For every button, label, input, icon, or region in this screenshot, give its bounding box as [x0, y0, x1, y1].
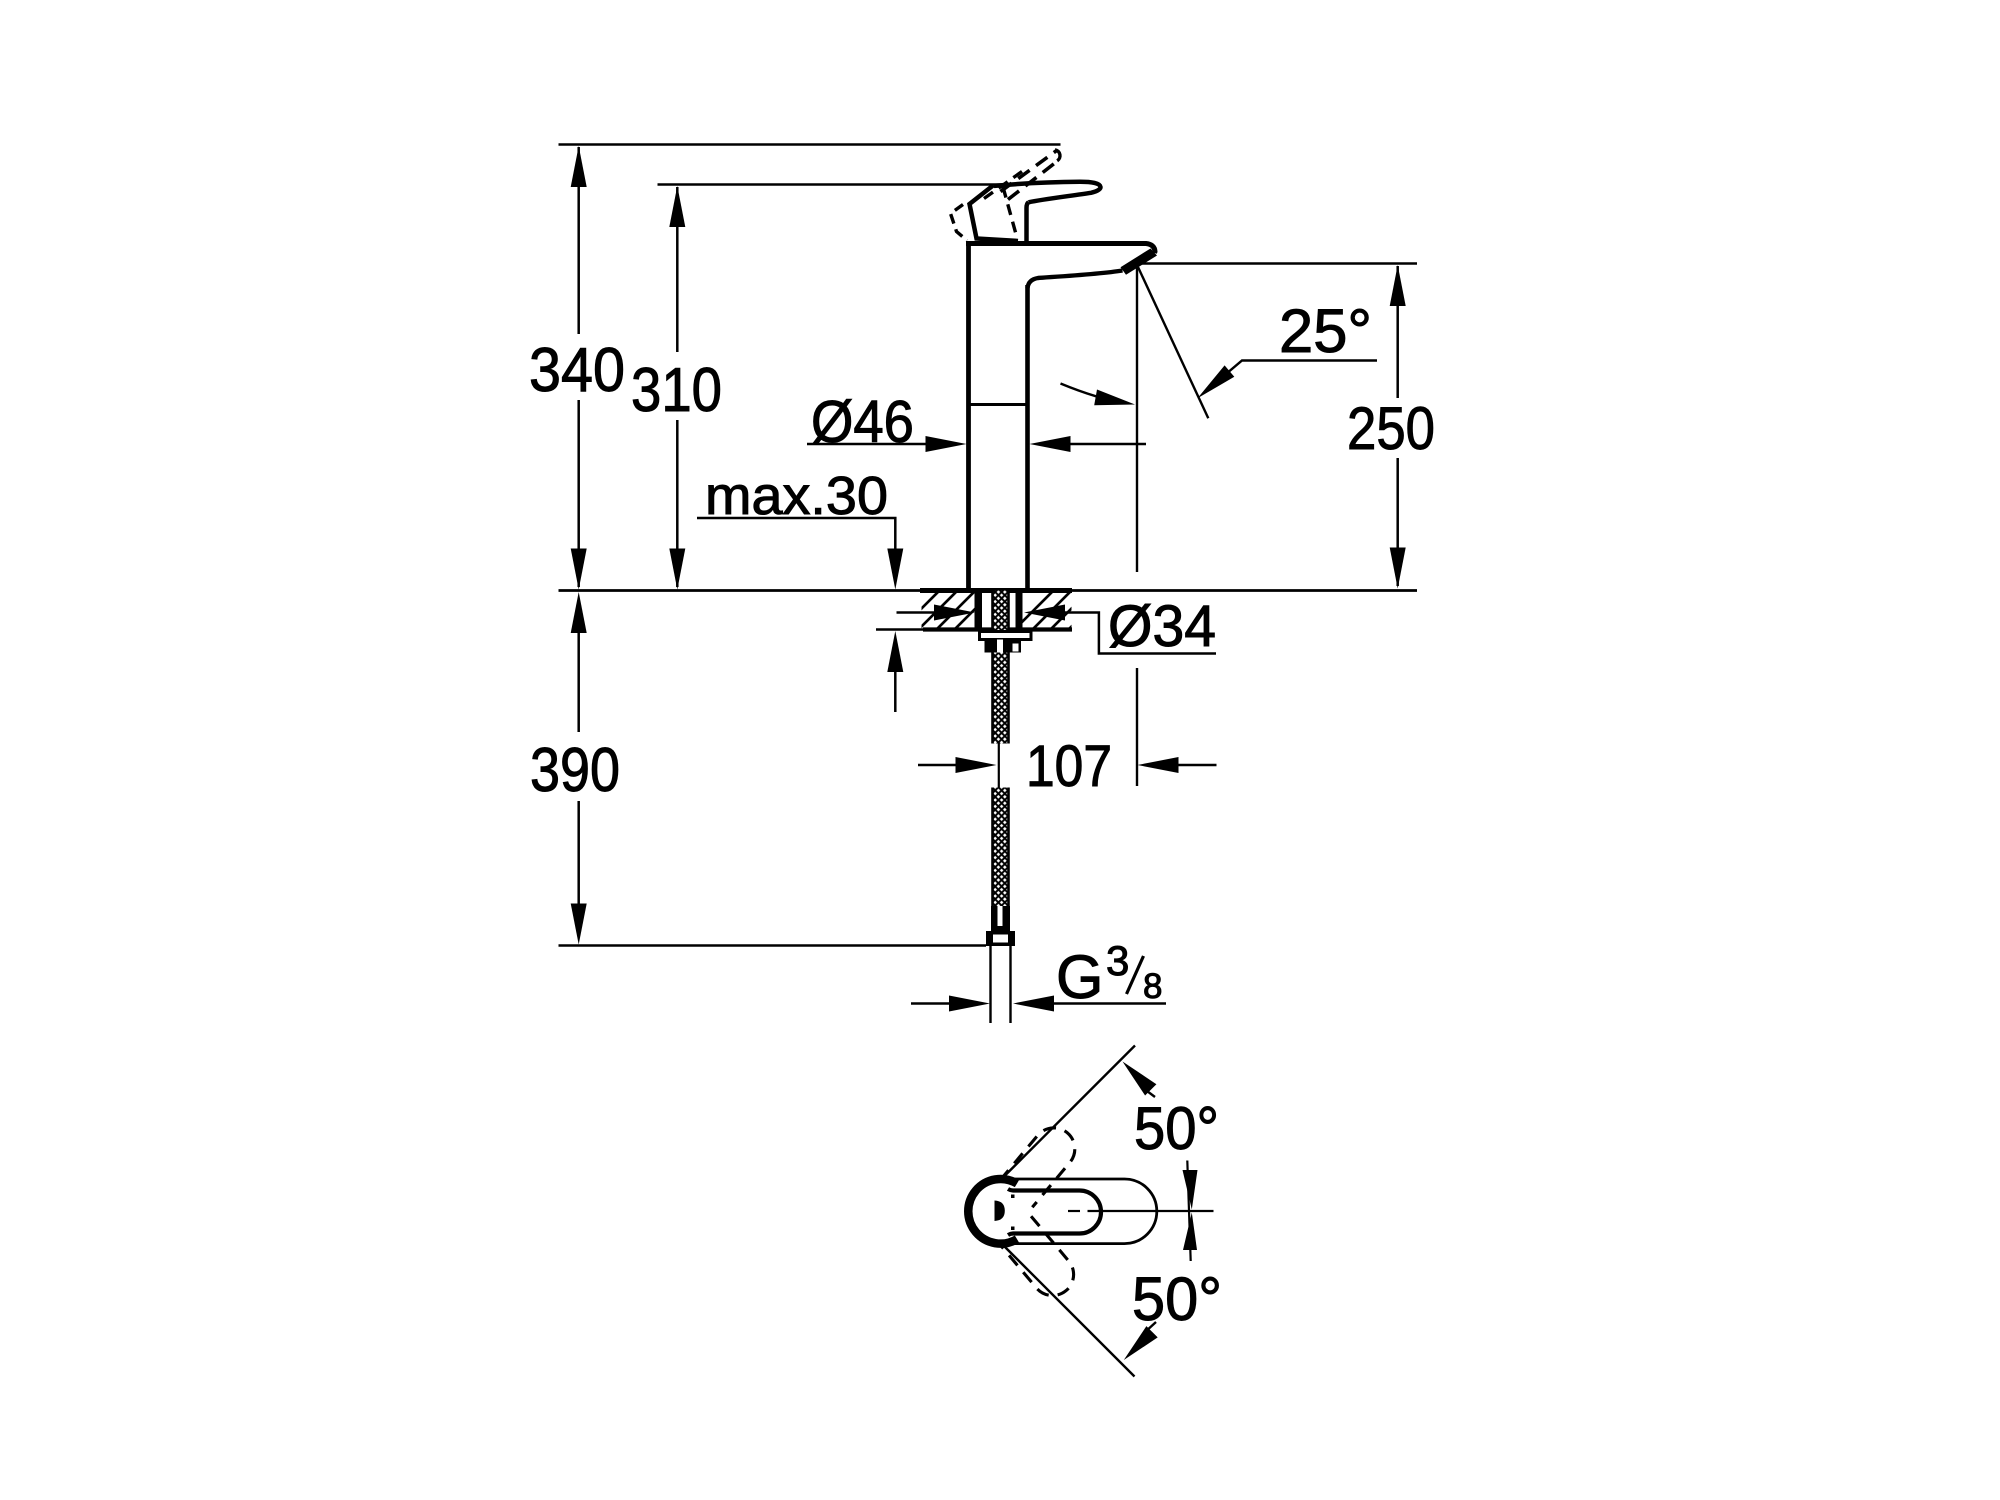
svg-text:310: 310 — [631, 356, 722, 425]
250 extension line top — [1139, 262, 1417, 265]
bottom view outer stadium — [968, 1179, 1157, 1244]
axis angle double arrow — [1187, 1161, 1190, 1262]
mounting nut — [985, 640, 1022, 653]
G3/8 dimension right — [1013, 996, 1054, 1012]
svg-text:50°: 50° — [1132, 1265, 1222, 1333]
bottom view knob thick arc — [968, 1179, 1017, 1244]
max.30 underline leader — [697, 518, 895, 552]
Ø34 dimension left — [897, 611, 939, 614]
counter bottom line — [923, 627, 1072, 631]
bottom view inner lever outline — [1008, 1189, 1101, 1235]
max.30 arrow down — [887, 549, 903, 590]
stream direction line — [1138, 267, 1208, 418]
hose middle thin line — [998, 744, 1000, 788]
connection tube — [989, 946, 991, 1023]
dimension 250 arrow down — [1390, 548, 1406, 589]
faucet body column right edge — [1025, 285, 1030, 589]
braided hose upper section — [993, 591, 1009, 744]
shank wall left — [975, 591, 983, 631]
upper 50 degree line — [1000, 1046, 1135, 1181]
dimension 340 arrow down — [571, 549, 587, 590]
dimension 340 arrow up — [571, 146, 587, 187]
svg-text:25°: 25° — [1279, 297, 1372, 365]
dimension 250 line — [1396, 266, 1399, 398]
counter cross-section hatch left — [896, 586, 998, 634]
faucet body top edge and spout tip — [966, 244, 1155, 254]
lever corner dots — [1011, 1195, 1015, 1199]
shank wall right — [1016, 591, 1023, 631]
dimension 310 line — [676, 187, 679, 352]
25 degree vertical reference line — [1136, 266, 1138, 572]
faucet body column left edge — [966, 242, 971, 589]
25 degree leader — [1203, 361, 1377, 394]
extension line 310 level — [658, 183, 1004, 186]
spout aerator bar — [1121, 249, 1158, 275]
dashed rotated knob outline — [951, 205, 968, 241]
dimension 390 arrow up — [571, 592, 587, 633]
dimension 390 arrow down — [571, 904, 587, 945]
dashed lever rotated up — [1000, 1119, 1083, 1207]
svg-text:G: G — [1056, 943, 1103, 1011]
G3/8 dimension left — [911, 1002, 953, 1005]
dimension 340 line — [577, 147, 580, 334]
svg-text:3: 3 — [1106, 937, 1129, 984]
spout underside — [1028, 271, 1123, 289]
dashed raised handle front edge — [1003, 187, 1017, 236]
handle knob — [970, 186, 1019, 242]
pivot mark — [995, 1201, 1005, 1222]
dashed lever rotated down — [999, 1216, 1082, 1304]
svg-text:107: 107 — [1026, 734, 1112, 799]
dimension 310 arrow up — [669, 186, 685, 227]
counter cross-section hatch right — [1010, 586, 1112, 634]
hose end fitting — [991, 906, 1010, 931]
angle arc — [1061, 384, 1127, 404]
svg-text:Ø34: Ø34 — [1108, 594, 1216, 659]
counter thickness arrow (30) — [887, 631, 903, 672]
dimension 390 line — [577, 633, 580, 732]
hose end extension line — [559, 944, 987, 947]
body joint line — [969, 403, 1027, 406]
axis line — [1068, 1210, 1080, 1212]
dashed raised lever top edge — [1001, 151, 1057, 192]
svg-text:50°: 50° — [1134, 1095, 1219, 1162]
Ø34 dimension right — [1024, 605, 1065, 621]
angle arc arrowhead — [1094, 390, 1135, 406]
counter bottom extension — [876, 628, 923, 631]
dimension 310 arrow down — [669, 549, 685, 590]
lower 50 degree arrowhead — [1124, 1326, 1158, 1360]
Ø46 dimension right — [1030, 436, 1071, 452]
Ø46 dimension left — [807, 443, 930, 446]
25 degree leader arrowhead — [1198, 365, 1235, 398]
braided hose lower section — [993, 788, 1009, 907]
handle neck front edge — [1027, 202, 1029, 241]
svg-text:390: 390 — [530, 736, 620, 805]
svg-text:8: 8 — [1143, 967, 1162, 1006]
dimension 107 left — [918, 764, 960, 767]
extension line top (340 level) — [559, 143, 1061, 146]
counter reference line — [559, 589, 1418, 592]
dashed raised lever lower edge continuation — [984, 172, 1022, 199]
dimension 107 right — [1138, 757, 1179, 773]
raised lever tip cap — [1055, 150, 1060, 161]
svg-text:250: 250 — [1347, 395, 1435, 462]
upper 50 degree arrowhead — [1123, 1062, 1157, 1096]
mounting flange — [980, 632, 1032, 640]
dashed raised lever bottom edge — [1008, 161, 1058, 200]
dimension 250 arrow up — [1390, 265, 1406, 306]
lower 50 degree line — [1001, 1243, 1135, 1377]
handle lever (solid) — [993, 182, 1101, 203]
svg-text:340: 340 — [529, 336, 625, 405]
